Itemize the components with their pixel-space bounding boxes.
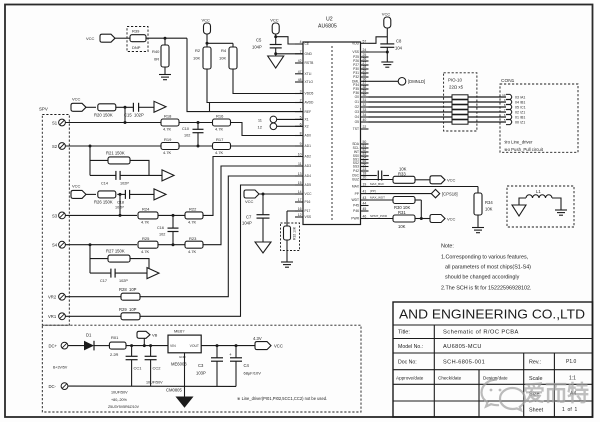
svg-text:S1: S1 <box>52 120 58 125</box>
svg-text:Note:: Note: <box>441 244 454 250</box>
svg-text:SS3: SS3 <box>353 165 359 169</box>
resistor R20 150K <box>94 104 116 118</box>
svg-text:104: 104 <box>395 46 403 51</box>
svg-text:C16: C16 <box>157 226 164 230</box>
wire pin20 to R33 <box>369 179 394 181</box>
svg-text:C14: C14 <box>101 181 108 185</box>
svg-text:VDD: VDD <box>352 42 360 46</box>
wire to C14 <box>90 174 116 176</box>
junction C5 top <box>274 35 277 38</box>
svg-text:SPV: SPV <box>39 107 48 112</box>
wire R16 to MCU pin8 <box>231 123 304 136</box>
label CC2 value <box>146 380 163 384</box>
ground below R32 <box>281 262 293 267</box>
capacitor C10 102 <box>182 123 204 147</box>
svg-text:AND ENGINEERING CO.,LTD: AND ENGINEERING CO.,LTD <box>399 307 585 322</box>
CON1 note push_pull <box>504 147 544 152</box>
terminal DC- <box>49 383 68 390</box>
svg-text:P42: P42 <box>353 169 359 173</box>
wire C5 to ground <box>276 48 303 56</box>
svg-text:※ Line_driver(PI01,PI02,5CC1,C: ※ Line_driver(PI01,PI02,5CC1,CC2) not be… <box>237 396 327 401</box>
svg-text:P17: P17 <box>305 209 311 213</box>
svg-text:GND: GND <box>179 355 187 359</box>
wire R29 to MCU pin15 <box>140 185 303 316</box>
wire R28 to MCU pin13 <box>140 176 303 297</box>
svg-text:10: 10 <box>298 153 302 157</box>
svg-text:C10: C10 <box>182 127 189 131</box>
power flag VCC (R20) <box>71 97 86 112</box>
svg-text:57: 57 <box>363 39 367 43</box>
svg-text:O2: O2 <box>355 105 360 109</box>
svg-text:104P: 104P <box>242 220 252 225</box>
svg-text:VOUT: VOUT <box>190 344 199 348</box>
wire MAX_BUF pin19 to R34 <box>369 182 479 187</box>
wire VR2 to R28 <box>65 296 121 298</box>
dashed box around R32 <box>281 223 300 251</box>
svg-text:REF: REF <box>305 110 312 114</box>
svg-text:C5: C5 <box>256 38 262 43</box>
ground below C5 <box>268 56 284 68</box>
wire VR1 to R29 <box>65 315 121 317</box>
wire pin41 to CPS18 <box>369 189 432 193</box>
wire R4 to MCU pin <box>233 69 303 94</box>
op-amp U2 AU6805 MCU body <box>303 42 361 225</box>
svg-text:Schematic of R/OC PCBA: Schematic of R/OC PCBA <box>443 330 519 336</box>
resistor R27 150K <box>90 249 130 263</box>
svg-text:00 /Z1: 00 /Z1 <box>515 120 525 124</box>
svg-text:AD4: AD4 <box>305 174 312 178</box>
svg-text:56: 56 <box>363 163 367 167</box>
capacitor CC2 electrolytic <box>145 346 162 387</box>
svg-text:1: 1 <box>300 108 302 112</box>
junction S3 to R26 row <box>119 193 122 217</box>
wire VCC to R2/R4 <box>207 34 233 47</box>
svg-text:MAX_BUF: MAX_BUF <box>370 182 384 186</box>
svg-text:C8: C8 <box>396 39 402 44</box>
doc row <box>398 359 577 366</box>
resistor R32 10K <box>284 226 297 240</box>
svg-text:10K: 10K <box>193 56 200 61</box>
power flag VCC (R31) <box>430 215 456 223</box>
svg-text:O3: O3 <box>355 110 360 114</box>
svg-text:SCH-6805-001: SCH-6805-001 <box>443 360 485 366</box>
svg-text:AD0: AD0 <box>305 134 312 138</box>
power flag VB <box>137 331 158 345</box>
svg-text:DC-: DC- <box>49 384 57 389</box>
op-amp buffer A <box>154 101 166 112</box>
resistor network PIO-10 22ohm x5 <box>448 78 468 125</box>
wire R33 to VCC <box>415 179 430 181</box>
size row <box>529 391 576 397</box>
svg-text:2.2R: 2.2R <box>110 352 119 357</box>
resistor R25 4.7K <box>138 236 158 254</box>
svg-text:R21 150K: R21 150K <box>106 150 125 155</box>
inductor L1 <box>526 189 552 198</box>
connector CON1 label <box>501 78 515 84</box>
wire R24 to R22 <box>158 214 185 216</box>
dashed box L1 <box>507 186 574 227</box>
op-amp buffer B <box>162 170 174 181</box>
svg-text:CC2: CC2 <box>153 366 162 371</box>
U2 right pins with numbers <box>351 39 368 220</box>
svg-text:32: 32 <box>363 103 367 107</box>
capacitor C4 electrolytic <box>229 346 261 387</box>
svg-text:17: 17 <box>298 198 302 202</box>
wire R26 to C18 <box>117 193 125 195</box>
wire DC+ to D1 <box>68 345 84 347</box>
wire R20 to C15 <box>116 106 134 108</box>
crystal terminal node 11 <box>258 116 303 123</box>
resistor R01 2.2R <box>109 335 126 357</box>
svg-text:30: 30 <box>363 93 367 97</box>
svg-text:33: 33 <box>363 108 367 112</box>
terminal DC+ <box>49 342 68 349</box>
wire regulator out rail <box>201 345 255 347</box>
op-amp buffer C <box>154 189 166 200</box>
label CC1 values <box>108 390 140 409</box>
svg-text:WDT: WDT <box>351 198 359 202</box>
node DMNLD <box>398 78 425 86</box>
svg-text:7: 7 <box>300 50 302 54</box>
wire R30 to R31 net <box>415 200 421 219</box>
resistor R19 4.7K <box>161 137 179 155</box>
dashed box key inputs <box>39 107 69 326</box>
svg-text:15: 15 <box>298 181 302 185</box>
svg-text:TST: TST <box>353 127 359 131</box>
U2 reference label <box>318 17 337 30</box>
svg-text:all parameters of most chips(S: all parameters of most chips(S1-S4) <box>445 265 531 271</box>
svg-text:47: 47 <box>298 70 302 74</box>
ground triangle regulator <box>177 397 193 407</box>
wire VCC to R26 <box>86 193 96 195</box>
svg-text:R27 150K: R27 150K <box>106 249 125 254</box>
svg-text:VCC: VCC <box>72 97 81 102</box>
svg-text:D1: D1 <box>86 333 92 338</box>
CON1 pins <box>502 93 525 124</box>
svg-text:R4: R4 <box>221 48 227 53</box>
wire pin24 to C8 ground <box>369 47 388 62</box>
svg-text:03 /A1: 03 /A1 <box>515 95 525 99</box>
svg-text:VCC: VCC <box>245 199 254 204</box>
svg-text:AU6805: AU6805 <box>318 24 337 30</box>
wire VCC to R20 <box>86 106 96 108</box>
svg-text:4.7K: 4.7K <box>141 249 150 254</box>
U2 internal dashed divider <box>331 46 333 220</box>
svg-text:4.7K: 4.7K <box>188 220 197 225</box>
svg-text:C4: C4 <box>244 363 250 368</box>
svg-text:VCC: VCC <box>86 36 95 41</box>
svg-text:O1: O1 <box>355 100 360 104</box>
regulator labels <box>166 362 187 393</box>
svg-text:Rev.:: Rev.: <box>529 360 541 366</box>
svg-text:R29 10P: R29 10P <box>119 307 137 312</box>
wire R01 to regulator <box>126 345 168 347</box>
svg-text:AD3: AD3 <box>305 164 312 168</box>
wire C18 to buffer C <box>130 193 154 195</box>
terminal VR1 <box>48 313 65 320</box>
svg-text:VCC: VCC <box>274 343 283 348</box>
wire step between nets <box>209 103 211 112</box>
company name <box>399 307 585 322</box>
svg-text:R22: R22 <box>189 207 197 212</box>
wire pin36 to DMNLD <box>369 80 399 82</box>
svg-text:VCC: VCC <box>202 18 211 23</box>
capacitor C16 102 <box>157 215 179 244</box>
svg-text:10K: 10K <box>398 224 406 229</box>
svg-text:R25: R25 <box>142 236 150 241</box>
svg-text:11: 11 <box>298 162 302 166</box>
dashed box CON1 <box>500 84 578 152</box>
resistor R18 4.7K <box>161 114 179 132</box>
svg-text:X1: X1 <box>305 118 309 122</box>
svg-text:MAX: MAX <box>352 185 360 189</box>
power flag VCC (C5) <box>270 18 279 35</box>
svg-text:R39: R39 <box>132 29 140 34</box>
wire R18 to R16 <box>179 122 213 124</box>
svg-text:102: 102 <box>159 232 165 236</box>
svg-text:16: 16 <box>298 207 302 211</box>
svg-text:4.7K: 4.7K <box>141 220 150 225</box>
svg-text:AD2: AD2 <box>305 155 312 159</box>
dashed box around R39 <box>127 27 148 52</box>
svg-text:Z5U3Y5V5R6Z/10V: Z5U3Y5V5R6Z/10V <box>108 405 140 409</box>
power flag VCC (C8) <box>382 12 391 29</box>
svg-text:Sheet: Sheet <box>529 408 544 414</box>
note not used <box>237 396 327 401</box>
svg-text:31: 31 <box>363 98 367 102</box>
svg-text:2: 2 <box>300 99 302 103</box>
svg-text:9: 9 <box>300 142 302 146</box>
wire C5 node to CE pin <box>276 37 303 44</box>
svg-text:Title:: Title: <box>398 330 410 336</box>
power flag VCC output <box>253 336 283 350</box>
svg-text:C17: C17 <box>100 279 107 283</box>
svg-text:※o Line_driver: ※o Line_driver <box>504 140 533 145</box>
model row <box>398 344 482 350</box>
terminal VR2 <box>48 293 65 300</box>
title block outline <box>393 302 593 417</box>
ground triangle in L1 box <box>512 205 526 216</box>
svg-text:VR2: VR2 <box>48 295 57 300</box>
terminal S1 <box>52 119 65 126</box>
svg-text:VCC: VCC <box>270 18 279 23</box>
svg-text:102P: 102P <box>119 279 128 283</box>
svg-text:10K: 10K <box>219 56 226 61</box>
svg-text:VDD5: VDD5 <box>305 92 314 96</box>
svg-text:46: 46 <box>363 215 367 219</box>
junction VCC split <box>206 42 209 45</box>
wire S1 row <box>65 122 161 124</box>
svg-text:02 /Z1: 02 /Z1 <box>515 110 525 114</box>
svg-text:44: 44 <box>363 202 367 206</box>
wire C14 to buffer B <box>121 174 163 176</box>
svg-text:AVDD: AVDD <box>305 101 315 105</box>
capacitor C7 104P <box>242 194 270 242</box>
wire R32 to ground <box>286 240 288 262</box>
svg-text:R17: R17 <box>216 137 224 142</box>
svg-text:6: 6 <box>300 122 302 126</box>
wire pin43 to R30 <box>369 196 394 200</box>
wire L1 right to earth <box>552 198 561 210</box>
junction C5 gnd pin7 <box>274 52 277 55</box>
wire D1 to R01 <box>94 345 109 347</box>
wire R39 net down to MCU <box>187 38 303 111</box>
resistor R30 10K <box>393 197 415 210</box>
CON1 note line_driver <box>504 140 533 145</box>
date row <box>396 376 576 382</box>
resistor R22 4.7K <box>185 207 203 225</box>
resistor R29 10P <box>119 307 140 320</box>
svg-text:1 of 1: 1 of 1 <box>562 407 578 413</box>
svg-text:VCC: VCC <box>382 12 391 17</box>
svg-text:R23: R23 <box>189 236 197 241</box>
svg-text:VCC: VCC <box>447 178 456 183</box>
svg-text:[DMNLD]: [DMNLD] <box>408 79 425 84</box>
wire R21 to C14 row <box>130 160 149 175</box>
svg-text:R2: R2 <box>195 48 201 53</box>
svg-text:04 /B1: 04 /B1 <box>515 100 525 104</box>
svg-text:should be changed accordingly: should be changed accordingly <box>445 275 520 281</box>
junction CC2 <box>149 344 152 347</box>
capacitor C17 102P <box>100 269 128 284</box>
svg-text:AD5: AD5 <box>305 183 312 187</box>
wire R22 to MCU pin10 <box>203 157 303 216</box>
wire to C17 <box>90 272 111 274</box>
svg-text:3: 3 <box>300 90 302 94</box>
svg-text:41: 41 <box>363 190 367 194</box>
diode D1 <box>84 333 94 351</box>
svg-text:S2: S2 <box>52 144 58 149</box>
svg-text:R18: R18 <box>164 114 172 119</box>
capacitor near pin18 <box>369 171 390 181</box>
svg-text:22: 22 <box>363 125 367 129</box>
ground below R34 <box>472 215 484 233</box>
svg-text:4.7K: 4.7K <box>163 150 172 155</box>
svg-text:20: 20 <box>363 176 367 180</box>
svg-text:O4: O4 <box>355 115 360 119</box>
svg-text:BUZ: BUZ <box>352 178 359 182</box>
junction R30/R31 <box>420 217 423 220</box>
wire R31 to VCC <box>415 218 430 220</box>
wire S2 row <box>65 145 161 147</box>
wire C15 to buffer <box>139 106 154 108</box>
ground below C7 <box>255 242 271 253</box>
svg-text:23: 23 <box>363 167 367 171</box>
svg-text:VCC: VCC <box>72 184 81 189</box>
svg-text:R26 150K: R26 150K <box>94 199 113 204</box>
svg-text:R24: R24 <box>142 207 150 212</box>
svg-text:XTLO: XTLO <box>305 80 314 84</box>
wire L1 left to ground <box>519 198 526 205</box>
svg-text:Approve/date: Approve/date <box>396 376 424 381</box>
label battery <box>53 366 68 370</box>
capacitor C15 102P <box>124 103 144 118</box>
svg-text:C15 102P: C15 102P <box>124 112 144 117</box>
svg-text:102: 102 <box>184 134 190 138</box>
svg-text:R40: R40 <box>152 49 160 54</box>
junction VB <box>143 344 146 347</box>
svg-text:CC1: CC1 <box>134 366 143 371</box>
capacitor CC1 electrolytic <box>126 346 143 387</box>
svg-text:P16: P16 <box>305 200 311 204</box>
svg-text:R20 150K: R20 150K <box>94 112 113 117</box>
svg-text:10: 10 <box>502 93 506 97</box>
svg-text:※o Push_Pull circuit: ※o Push_Pull circuit <box>504 147 544 152</box>
resistor R2 10K <box>193 47 211 69</box>
wire R25 to R23 <box>158 244 185 246</box>
resistor R40 0R <box>152 38 169 67</box>
svg-text:103P: 103P <box>196 371 206 376</box>
wire C17 to buffer D <box>115 272 147 274</box>
svg-text:12: 12 <box>258 124 263 129</box>
resistor R4 10K <box>219 47 237 69</box>
wire R2 to MCU pin <box>207 69 303 103</box>
svg-text:1.Corresponding to various fea: 1.Corresponding to various features, <box>441 255 529 261</box>
wire MCU pin16 to R32 <box>287 211 303 226</box>
svg-text:R16: R16 <box>216 114 224 119</box>
svg-text:Check/date: Check/date <box>438 376 462 381</box>
note text <box>441 244 532 292</box>
svg-text:ME6?: ME6? <box>174 329 185 334</box>
wire VCC to C5 <box>275 34 277 45</box>
earth ground in L1 box <box>555 210 567 215</box>
wire R23 to MCU pin11 <box>203 166 303 245</box>
svg-text:2.The SCH is fit for 152225969: 2.The SCH is fit for 15222596928102. <box>441 286 532 292</box>
resistor R16 4.7K <box>213 114 231 132</box>
power flag VCC (R39 input) <box>86 34 115 42</box>
svg-text:O0: O0 <box>355 95 360 99</box>
U2 left pins with numbers <box>295 40 314 219</box>
svg-text:8: 8 <box>300 132 302 136</box>
title block column lines <box>434 325 554 417</box>
svg-text:+80,-20%: +80,-20% <box>111 398 128 402</box>
svg-text:PWR: PWR <box>351 217 359 221</box>
dashed box PIO-10 network <box>444 73 477 131</box>
junction C16 bottom <box>172 243 175 246</box>
dashed box power supply <box>42 325 361 412</box>
power flag VCC (R33) <box>430 176 456 184</box>
svg-text:40: 40 <box>363 118 367 122</box>
capacitor C18 102P <box>115 190 130 210</box>
svg-text:R01: R01 <box>111 335 119 340</box>
wire R19 to R17 <box>179 145 213 147</box>
svg-text:CM0805: CM0805 <box>166 388 182 393</box>
wire R39 to R40 junction <box>146 37 187 39</box>
svg-text:VR1: VR1 <box>48 314 57 319</box>
junction C8 bottom <box>386 51 389 54</box>
wire pin46 to R31 <box>369 214 394 218</box>
svg-text:B+3V/5V: B+3V/5V <box>53 366 68 370</box>
svg-text:34: 34 <box>363 113 367 117</box>
svg-text:12: 12 <box>298 213 302 217</box>
op-amp buffer D <box>147 268 159 279</box>
svg-text:4.7K: 4.7K <box>215 127 224 132</box>
watermark logo <box>482 380 590 411</box>
svg-text:4.7K: 4.7K <box>188 249 197 254</box>
svg-text:4: 4 <box>300 40 302 44</box>
resistor R31 10K <box>393 210 415 229</box>
power flag VCC (pin14) <box>244 190 259 204</box>
svg-text:4.7K: 4.7K <box>215 150 224 155</box>
title row <box>398 330 519 336</box>
svg-text:01 /B1: 01 /B1 <box>515 115 525 119</box>
junction C16 tap <box>172 214 175 217</box>
svg-text:C3: C3 <box>198 363 204 368</box>
svg-text:GND: GND <box>305 52 313 56</box>
junction C3 <box>216 344 219 347</box>
wire S3 row <box>65 214 137 216</box>
svg-text:R34: R34 <box>485 200 493 205</box>
